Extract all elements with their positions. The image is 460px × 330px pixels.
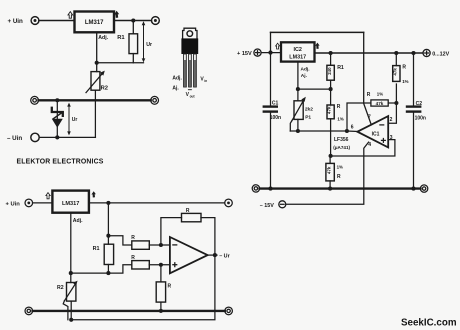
junction P1 bottom [296,129,300,133]
wire branch to lower R [108,265,131,273]
svg-text:LM317: LM317 [62,201,79,207]
TO-220 tab [183,28,197,38]
terminal rail left (circuit 2) [252,185,259,192]
svg-text:1%: 1% [377,91,383,96]
junction zener/rail [55,98,59,102]
input current arrow (outline, circuit 3) [46,193,50,199]
wire to pin 2 [388,84,396,123]
terminal rail left (circuit 3) [25,307,33,315]
op-amp IC1 triangle [357,116,388,147]
svg-text:in: in [204,79,207,83]
wire Adj pin IC2 [297,62,299,90]
svg-text:1%: 1% [402,79,408,84]
svg-text:ELEKTOR ELECTRONICS: ELEKTOR ELECTRONICS [17,159,104,166]
junction Adj node [95,61,99,65]
resistor R (ground leg) [156,265,165,311]
wire rail down to op-amp pin 7 [364,32,372,124]
junction C2 top [411,51,415,55]
resistor R (lower input) [132,261,150,269]
junction R ground leg/rail [159,309,163,313]
junction R1 top [329,51,333,55]
wire R2 to -Uin line [94,90,96,137]
plus sign (pin 3 input) [382,139,386,143]
terminal output (circuit 3) [225,199,233,207]
output rail IC2 to 0..12V [315,52,424,54]
TO-220 leg 2 (Vout) [189,54,192,87]
wire +Uin to LM317 (circuit 3) [33,202,53,204]
minus sign (pin 2 input) [380,124,384,126]
output current arrow (filled, circuit 3) [91,191,96,197]
junction Adj/R2 [69,271,73,275]
svg-text:Aj.: Aj. [172,85,179,91]
svg-text:R: R [402,64,406,70]
junction C1 bottom [268,187,272,191]
svg-text:+ 15V: + 15V [237,51,252,57]
resistor R 47k (feedback) [371,100,388,106]
feedback wire to output [201,218,215,256]
wire lower R to plus input [149,264,170,266]
svg-text:LM317: LM317 [289,55,306,61]
terminal +15V [254,49,261,56]
svg-text:+ Uin: + Uin [8,18,24,25]
wire up to top rail [270,32,272,52]
wire Adj to R1 bottom [71,272,109,274]
terminal 0..12V [423,49,430,56]
capacitor C2 100n [407,53,420,189]
svg-text:R1: R1 [337,65,344,71]
wire LM317 to output terminal [114,20,151,22]
svg-text:P1: P1 [305,114,311,120]
terminal rail right (circuit 3) [225,307,233,315]
svg-text:100n: 100n [270,115,281,121]
svg-text:– Uin: – Uin [7,135,22,142]
junction output/R1 (circuit 3) [106,201,110,205]
zener diode (Ur reference) [52,101,63,137]
svg-text:LF356: LF356 [334,137,349,143]
svg-text:7: 7 [368,115,371,121]
minus sign (circuit 3 op-amp) [173,244,177,246]
junction 47k top right [394,51,398,55]
TO-220 leg 1 (Adj) [184,54,187,87]
svg-text:240: 240 [327,67,332,75]
junction feedback/minus input [159,243,163,247]
voltage arrow Ur (across R1) [142,21,146,62]
wire Adj node to R1 bottom [97,62,144,64]
svg-text:6: 6 [351,125,354,131]
svg-text:Adj.: Adj. [98,35,108,41]
terminal 0V left (circuit 1) [31,96,39,104]
wire Adj pin down (circuit 3) [70,213,72,273]
svg-text:1%: 1% [337,164,343,169]
svg-text:Adj.: Adj. [73,218,83,224]
svg-text:Ur: Ur [72,117,78,123]
regulator LM317 (circuit 3) [52,191,89,213]
feedback wire left [347,103,371,131]
svg-text:4: 4 [368,142,371,148]
terminal -15V [279,201,286,208]
svg-text:2: 2 [390,117,393,123]
terminal output (circuit 1) [152,17,160,25]
resistor R (upper input) [132,241,150,249]
variable resistor R2 (circuit 3) [63,273,77,320]
output rail (circuit 3) [89,202,225,204]
resistor R1 240R [327,53,334,89]
svg-text:Ur: Ur [146,42,152,48]
feedback loop wire [161,218,182,245]
svg-text:R: R [367,92,371,98]
terminal -Uin [31,133,39,141]
wire -Uin [39,136,95,138]
regulator IC2 LM317 [281,42,315,61]
junction output/R1 [131,18,135,22]
TO-220 leg 3 (Vin) [194,54,197,87]
wire Adj node horizontal [298,88,331,90]
resistor R 47k (top right) [392,53,400,81]
junction op-amp output node [345,129,349,133]
svg-text:47k: 47k [327,106,332,114]
svg-text:– Ur: – Ur [219,254,230,260]
wire +15V to IC2 [261,52,281,54]
output current arrow IC2 (filled) [315,43,320,49]
junction zener/-Uin wire [55,135,59,139]
svg-text:– 15V: – 15V [260,203,274,209]
junction 47k lower bottom [328,187,332,191]
pin mark middle leg [188,89,191,91]
junction +15V node [268,51,272,55]
feedback wire right [388,102,396,104]
resistor R 47k (upper middle) [327,89,335,156]
label Vin (package) [200,76,207,82]
junction R1 top branch [106,234,110,238]
junction pin3/47k lower [329,154,333,158]
output current arrow (filled) [114,11,119,18]
resistor R 47k (lower) [326,156,334,189]
bottom rail (circuit 3) [33,310,225,312]
junction R1 bottom [106,271,110,275]
svg-text:Adj.: Adj. [301,67,310,73]
svg-text:47k: 47k [392,68,397,76]
wire pin 3 [331,140,395,156]
svg-text:+ Uin: + Uin [6,201,21,207]
TO-220 body [181,38,198,54]
svg-text:R: R [337,174,341,180]
capacitor C1 100n [264,53,277,189]
svg-text:1%: 1% [337,116,343,121]
svg-text:IC1: IC1 [372,131,380,137]
op-amp output wire [208,254,217,256]
terminal +Uin [31,17,39,25]
svg-text:R: R [337,104,341,110]
svg-text:R: R [131,235,135,241]
input current arrow (outline) [68,12,73,19]
svg-text:C1: C1 [272,100,279,106]
resistor R1 (circuit 3) [104,244,113,273]
svg-text:100n: 100n [415,115,426,121]
svg-text:R: R [131,255,135,261]
label Vout (package) [186,92,196,98]
input current arrow IC2 (outline) [276,43,280,49]
regulator LM317 (circuit 1) [75,12,115,33]
top supply rail [271,31,364,33]
svg-text:R1: R1 [93,246,100,252]
svg-text:0...12V: 0...12V [432,52,449,58]
junction C2 bottom [411,187,415,191]
wire output stub to op-amp [347,130,358,133]
wire output down to R2 return [71,255,215,320]
bottom rail (circuit 2) [260,187,421,189]
wire Adj pin down [96,32,98,71]
potentiometer P1 2k2 [290,89,306,131]
terminal rail right (circuit 2) [420,185,427,192]
wire pin 4 to -15V [286,142,369,204]
terminal 0V right (circuit 1) [151,96,159,104]
wire branch to upper R [108,236,131,245]
svg-text:IC2: IC2 [294,47,302,53]
wire down to R1 (circuit 3) [107,203,109,244]
junction feedback/47k [394,101,398,105]
svg-text:Adj.: Adj. [172,75,182,81]
wire wiper/output node [290,130,347,132]
terminal +Uin (circuit 3) [25,199,33,207]
svg-text:R2: R2 [101,86,108,92]
junction R2 return [69,318,73,322]
0V rail (circuit 1) [39,99,151,101]
junction Adj/R1 bottom [329,87,333,91]
svg-text:R2: R2 [57,285,64,291]
svg-text:SeekIC.com: SeekIC.com [401,318,457,329]
svg-text:C2: C2 [416,101,423,107]
wire +Uin to LM317 [39,20,75,22]
junction output node (circuit 3) [213,253,217,257]
resistor R1 (circuit 1) [129,21,138,63]
svg-text:47k: 47k [326,166,331,174]
svg-text:(μA741): (μA741) [333,145,350,150]
op-amp triangle (circuit 3) [170,237,208,273]
voltage arrow Ur (across zener) [67,103,71,136]
svg-text:R1: R1 [117,35,125,41]
svg-text:Aj.: Aj. [301,73,307,79]
svg-text:R: R [186,208,190,214]
svg-text:LM317: LM317 [85,20,104,26]
plus sign (circuit 3 op-amp) [173,263,177,267]
svg-text:2k2: 2k2 [305,107,313,113]
variable resistor R2 (circuit 1) [86,71,105,93]
junction plus input/R ground [159,263,163,267]
svg-text:47k: 47k [376,101,384,106]
junction Adj/P1 [296,87,300,91]
resistor R (feedback, circuit 3) [182,213,202,221]
svg-text:R: R [168,284,172,290]
wire upper R to minus input [149,244,170,246]
